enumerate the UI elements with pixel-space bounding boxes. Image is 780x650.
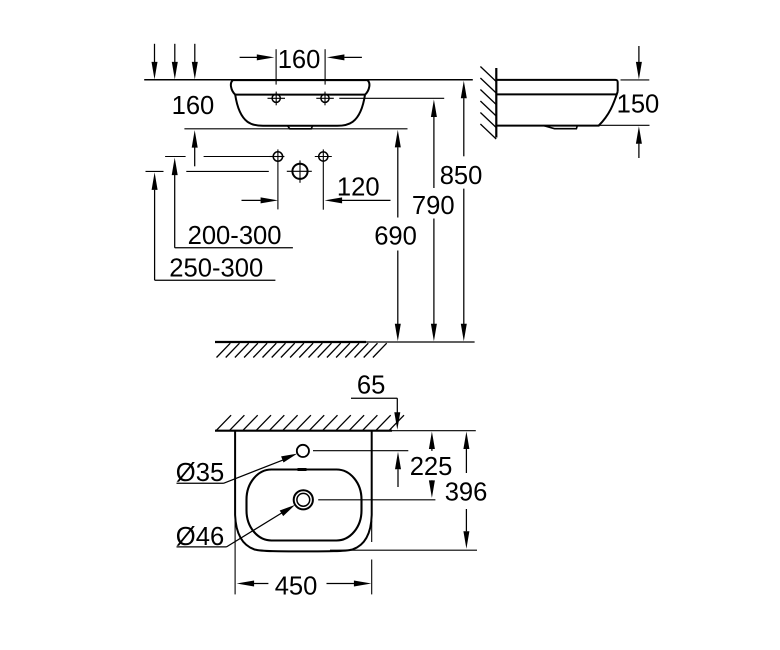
drain hole plan view (diameter 46) [294, 490, 313, 509]
dimension 120 left segment with arrow [242, 197, 279, 203]
leader tap hole level to left hole [204, 156, 273, 158]
left tap hole (plan detail) [269, 152, 284, 161]
leader spout hole level to center hole [186, 170, 268, 172]
center spout hole (plan detail) [287, 160, 312, 182]
dimension 450 left arrow [237, 581, 269, 587]
tap hole level tick [165, 156, 186, 158]
arrow up to basin bottom line (160 dim) [192, 130, 198, 166]
tap hole plan view (diameter 35) [297, 445, 309, 457]
side view bowl profile [599, 92, 618, 126]
extension line 450 right [371, 521, 373, 595]
label 200-300 [188, 222, 282, 250]
svg-text:850: 850 [440, 162, 483, 190]
leader line hole level to 225/65 [313, 450, 408, 452]
basin front drain outlet [288, 126, 313, 129]
basin front view top edge [233, 79, 368, 81]
svg-text:120: 120 [337, 173, 380, 201]
label 450 [275, 572, 318, 600]
dimension 225 [429, 432, 435, 498]
plan view wall line [215, 430, 476, 432]
label diameter 46 [176, 523, 224, 551]
side view basin bottom edge [496, 125, 599, 127]
label diameter 35 [176, 459, 224, 487]
label 120 [337, 173, 380, 201]
label 225 [410, 453, 453, 481]
floor hatching [217, 343, 387, 357]
label 850 [440, 162, 483, 190]
dimension line 790 [431, 100, 437, 342]
wall mount arrow 3 (down) [192, 44, 198, 80]
dimension 65 underline and down arrow [351, 398, 400, 430]
leader arrow to tap hole [177, 454, 298, 484]
underline 200-300 [175, 247, 293, 249]
svg-text:200-300: 200-300 [188, 222, 282, 250]
dimension 120 right segment with arrow [325, 197, 391, 203]
extension line right faucet hole (front) [324, 49, 326, 84]
svg-text:450: 450 [275, 572, 318, 600]
label 160 hole spacing [278, 46, 321, 74]
left faucet hole (front view) [268, 92, 286, 106]
basin front view rim bottom line [235, 94, 365, 96]
svg-text:790: 790 [412, 192, 455, 220]
left tap hole extension line [277, 149, 279, 209]
arrow up to tap hole level (200-300 dim) [172, 158, 178, 248]
floor line [215, 341, 475, 343]
arrow up to spout hole level (250-300 dim) [152, 172, 158, 280]
basin front view outer rim [231, 80, 370, 95]
svg-text:396: 396 [445, 478, 488, 506]
overflow mark [298, 468, 307, 471]
label 65 [357, 372, 385, 400]
wall mount arrow 2 (down) [172, 44, 178, 80]
label 690 [374, 223, 417, 251]
bottom reference line (basin front edge) [330, 549, 477, 551]
right tap hole extension line [322, 149, 324, 209]
svg-text:160: 160 [172, 92, 215, 120]
svg-text:225: 225 [410, 453, 453, 481]
reference line faucet hole level to 790 [339, 97, 444, 99]
basin front view bowl outline [235, 95, 365, 126]
label 790 [412, 192, 455, 220]
leader line drain level to 225 [318, 499, 435, 501]
right faucet hole (front view) [316, 92, 334, 106]
side view wall hatching [480, 67, 496, 140]
dimension 65 up arrow below hole line [395, 452, 401, 487]
underline 250-300 [155, 279, 276, 281]
wall top line (front view) [144, 79, 473, 81]
dimension line 850 [461, 81, 467, 342]
dimension 450 right arrow [327, 581, 372, 587]
side view rim bottom line [496, 93, 616, 95]
extension line left faucet hole (front) [275, 49, 277, 84]
dimension 396 [463, 432, 469, 549]
extension line 150 top [621, 79, 650, 81]
label 250-300 [169, 254, 263, 282]
extension line 150 bottom [600, 124, 650, 126]
svg-text:65: 65 [357, 372, 385, 400]
dimension line 160 top right segment with arrow [327, 54, 362, 60]
dimension 150 top arrow [636, 46, 642, 79]
label 396 [445, 478, 488, 506]
plan view wall hatching [217, 415, 405, 430]
label 150 [617, 90, 660, 118]
side view wall line [495, 68, 497, 138]
side view drain outlet [544, 126, 578, 129]
svg-text:160: 160 [278, 46, 321, 74]
leader arrow to drain hole [177, 505, 296, 547]
svg-text:150: 150 [617, 90, 660, 118]
basin bottom reference line A [184, 128, 407, 130]
svg-text:250-300: 250-300 [169, 254, 263, 282]
plan view basin outer outline [235, 431, 372, 552]
dimension line 160 top left segment with arrow [240, 54, 275, 60]
plan view inner bowl [247, 470, 362, 541]
side view basin top edge [496, 80, 617, 92]
svg-text:690: 690 [374, 223, 417, 251]
wall mount arrow 1 (down) [152, 44, 158, 80]
spout hole level line left [146, 170, 164, 172]
extension line 450 left [234, 517, 236, 594]
dimension line 690 [395, 130, 401, 341]
right tap hole (plan detail) [315, 152, 332, 161]
dimension 150 bottom arrow [636, 126, 642, 158]
label 160 wall to basin bottom [172, 92, 215, 120]
